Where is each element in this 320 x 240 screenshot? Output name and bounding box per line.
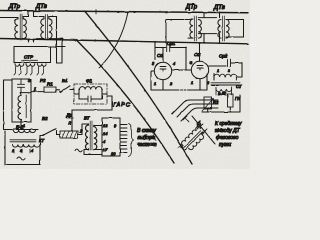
wire long lower-left xyxy=(14,46,65,48)
diagonal D2 xyxy=(85,11,192,164)
filter box Ф1 (dash-dot) xyxy=(74,84,107,104)
junction dots bus2 xyxy=(28,39,30,41)
choke hatched box xyxy=(60,131,78,138)
left long wire xyxy=(4,80,13,130)
enclosure xyxy=(5,131,40,165)
transformer ДТв right (T4) xyxy=(218,16,244,41)
secondary winding xyxy=(13,145,40,148)
transformer ДТв left (T2) xyxy=(34,11,53,42)
capacitor in box xyxy=(18,79,25,93)
dashed resistor xyxy=(177,89,189,91)
wire tilde to connector xyxy=(84,154,102,156)
wire to R1 xyxy=(21,92,44,93)
transformer ДТр left (T1) xyxy=(15,11,29,42)
wire between transistors xyxy=(172,69,192,71)
transformer АТ rotated xyxy=(178,125,207,154)
tick on top bus xyxy=(95,10,97,15)
resistor ГИ xyxy=(228,94,234,107)
output transformer secondary xyxy=(216,87,232,92)
pin comb xyxy=(120,125,127,153)
transformer ВТ xyxy=(84,121,102,155)
text В схему выбора частот xyxy=(137,128,157,148)
potentiometer R2 xyxy=(204,97,212,109)
primary winding xyxy=(13,130,35,133)
bottom loop wires xyxy=(202,95,240,112)
wire switch to Ф1 xyxy=(70,89,74,91)
wire stub top xyxy=(80,10,87,12)
switch В2 xyxy=(40,129,60,136)
wire drop to CTP box xyxy=(13,47,15,63)
connector block ГАРС xyxy=(102,118,120,156)
secondary leads xyxy=(14,149,30,153)
coupling wire Ср1 xyxy=(155,47,166,49)
wire choke to ВТ xyxy=(78,124,89,135)
wire T3-T4 links xyxy=(198,18,216,34)
text К среднему выводу ДТ фазового пути xyxy=(215,121,242,148)
label ~ xyxy=(17,157,25,160)
diagonal D1 xyxy=(76,40,174,164)
junction arc-bus xyxy=(127,11,129,13)
switch В1 xyxy=(60,86,70,93)
top rail xyxy=(8,129,38,131)
brace xyxy=(129,124,134,157)
coil lead hooks xyxy=(14,67,21,76)
wire bus2 drop left stage xyxy=(154,42,156,60)
wire second bus xyxy=(0,39,248,44)
wire R1 to switch xyxy=(56,89,60,91)
capacitor Ср1 xyxy=(167,44,170,52)
wire from box down xyxy=(20,122,22,128)
output transformer core xyxy=(211,83,240,85)
wire Ф1 out loop xyxy=(72,96,112,131)
transformer ДТр right (T3) xyxy=(166,16,201,43)
wire left emitter rail xyxy=(151,71,177,90)
core xyxy=(10,140,36,142)
wire junction down xyxy=(185,48,187,71)
LC inside Ф1 xyxy=(74,89,107,99)
arc wire xyxy=(99,12,128,68)
label ~ xyxy=(75,149,82,152)
wire СТР rail xyxy=(14,47,51,63)
transistor О1 circle xyxy=(154,62,171,79)
wire top bus xyxy=(0,11,248,13)
capacitor Ср2 xyxy=(228,60,231,67)
diagonal D3 with break arrows xyxy=(192,116,215,144)
resonant circuit box xyxy=(12,79,31,122)
junction dots top bus xyxy=(28,10,30,12)
output transformer primary xyxy=(214,74,236,80)
wire T1 feed xyxy=(0,17,18,19)
coils under СТР xyxy=(15,64,24,67)
transistor О2 circle xyxy=(191,61,208,78)
junction ticks xyxy=(178,144,184,150)
resistor R1 xyxy=(44,87,56,92)
wire О2 to Ср2 xyxy=(209,65,226,67)
wire T2 secondary loop xyxy=(49,17,57,47)
three wires to АТ xyxy=(172,100,218,114)
inductor in box xyxy=(18,93,21,122)
wire vertical pair xyxy=(57,47,63,64)
